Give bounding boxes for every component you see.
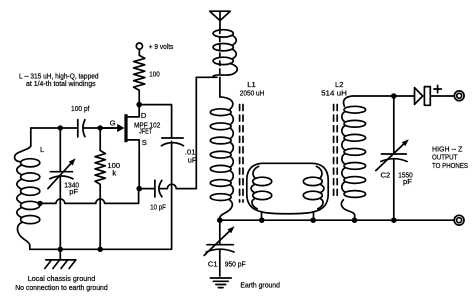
- core lines L2 (dashed): [333, 105, 335, 200]
- capacitor C2 top lead: [393, 96, 395, 153]
- label + polarity: [434, 88, 441, 90]
- wire L2 entry curve: [344, 96, 353, 106]
- capacitor 100 pF left plate: [77, 120, 79, 137]
- coupling coil inner loops: [253, 177, 272, 185]
- node tap dot on coil L: [37, 201, 42, 206]
- svg-text:C2: C2: [381, 170, 391, 179]
- wire source to 10pF: [139, 188, 154, 190]
- transistor source lead: [128, 140, 140, 189]
- wire axis to L1: [219, 77, 221, 97]
- capacitor C2 arrow: [376, 142, 406, 171]
- coupling coil leads: [261, 212, 263, 220]
- node dot rail-100k: [98, 247, 103, 252]
- svg-text:10 pF: 10 pF: [150, 203, 166, 212]
- svg-text:S: S: [142, 138, 147, 147]
- node dot rail-1340pF: [58, 247, 63, 252]
- resistor 100 zigzag: [134, 55, 145, 90]
- wire supply to resistor: [138, 49, 140, 55]
- svg-text:2050 uH: 2050 uH: [240, 89, 264, 98]
- svg-text:C1: C1: [208, 260, 218, 269]
- node dot C2 bottom: [391, 217, 397, 223]
- coupling coil outer turn: [247, 163, 328, 212]
- svg-text:100 pf: 100 pf: [71, 104, 90, 113]
- capacitor C1 straight plate: [207, 244, 233, 246]
- capacitor .01 uF top plate: [162, 137, 183, 139]
- coupling coil inner connectors: [253, 166, 259, 178]
- capacitor C2 curved plate: [381, 159, 407, 162]
- earth ground symbol: [210, 277, 231, 279]
- antenna symbol: [210, 11, 231, 20]
- resistor 100k zigzag: [95, 151, 105, 185]
- terminal output bottom: [454, 215, 464, 225]
- svg-text:Local chassis ground: Local chassis ground: [28, 274, 96, 283]
- capacitor C1 top lead: [219, 220, 221, 244]
- node dot C2 top: [391, 93, 397, 99]
- svg-text:L2: L2: [335, 80, 343, 89]
- wire coil L exit curve: [17, 222, 29, 249]
- svg-text:L: L: [40, 145, 44, 154]
- wire 100pF to gate: [83, 127, 117, 129]
- node dot L1/C1: [217, 217, 223, 223]
- diode D1 cathode bar: [424, 87, 430, 106]
- svg-text:D: D: [141, 111, 147, 120]
- coil L (tank inductor, tapped): [21, 159, 40, 167]
- node dot L2 bottom: [352, 217, 358, 223]
- svg-text:L1: L1: [247, 80, 255, 89]
- capacitor 10 pF curved plate: [159, 180, 162, 196]
- capacitor C2 straight plate: [381, 153, 406, 155]
- node junction dot 1340pF top: [58, 125, 63, 130]
- capacitor 1340 pF variable: top lead: [59, 128, 61, 171]
- wire L1 entry curve: [220, 97, 233, 111]
- svg-text:k: k: [112, 169, 116, 178]
- terminal output top: [454, 91, 464, 101]
- diode D1 triangle: [415, 88, 423, 105]
- transistor drain lead: [128, 106, 140, 117]
- capacitor 100 pF right curved plate: [83, 120, 85, 137]
- resistor 100k leads: [99, 128, 101, 151]
- wire tap to source (with hops): [40, 190, 139, 203]
- antenna coupling coil: [213, 30, 233, 37]
- svg-text:100: 100: [149, 69, 160, 78]
- terminal +9V supply circle: [136, 43, 142, 49]
- chassis ground symbol: [59, 249, 61, 260]
- svg-text:pF: pF: [69, 187, 78, 196]
- wire mid ground rail: [220, 219, 454, 221]
- coupling coil bottom arc: [262, 212, 314, 214]
- svg-text:Earth ground: Earth ground: [240, 280, 280, 289]
- capacitor 1340 pF straight plate: [50, 171, 72, 173]
- svg-text:No connection to earth ground: No connection to earth ground: [15, 283, 108, 292]
- svg-text:950 pF: 950 pF: [225, 260, 246, 269]
- capacitor 10 pF left plate: [154, 180, 156, 197]
- wire L2 exit curve: [341, 200, 354, 220]
- capacitor C2 bottom lead: [393, 160, 395, 221]
- node dot coupling right: [310, 217, 316, 223]
- wire L1 exit curve: [220, 199, 232, 220]
- antenna coil exit sweep to regen wire: [196, 63, 237, 77]
- capacitor .01 uF curved plate: [161, 143, 183, 146]
- coil L1: [210, 109, 231, 116]
- svg-text:pF: pF: [403, 177, 412, 186]
- svg-text:G: G: [110, 118, 116, 127]
- wire drain node to .01uF: [139, 105, 171, 137]
- wire bottom-left ground rail: [30, 142, 172, 250]
- capacitor C1 bottom lead: [219, 250, 221, 276]
- transistor gate lead with arrow: [100, 127, 118, 129]
- wire 10pF to riser (hop over .01 lead): [160, 77, 196, 188]
- wire top rail left (coil L top to 100pF): [31, 128, 77, 146]
- capacitor 1340 pF arrow: [48, 162, 72, 189]
- node drain junction dot: [136, 102, 142, 108]
- capacitor C1 curved plate: [206, 249, 234, 252]
- svg-text:at 1/4-th total windings: at 1/4-th total windings: [26, 79, 96, 88]
- wire resistor to drain node: [138, 90, 140, 104]
- capacitor 1340 pF bottom lead: [59, 177, 61, 250]
- capacitor C1 arrow: [204, 229, 231, 255]
- core lines L1 (dashed): [239, 105, 241, 203]
- svg-text:uF: uF: [188, 156, 197, 165]
- node junction dot 100k top: [98, 125, 103, 130]
- svg-text:+ 9 volts: + 9 volts: [149, 42, 174, 51]
- wire hidden axis (dashed): [219, 29, 221, 77]
- node source junction dot: [136, 186, 142, 192]
- wire L2 top to diode: [352, 95, 414, 97]
- coil L2: [344, 106, 366, 113]
- wire diode to output terminal: [430, 95, 454, 97]
- svg-text:JFET: JFET: [139, 127, 152, 136]
- svg-text:514 uH: 514 uH: [321, 89, 347, 98]
- wire coil L entry curve: [15, 146, 31, 162]
- capacitor 1340 pF curved plate: [50, 176, 73, 179]
- transistor Q1 MPF 102 JFET channel bar: [124, 114, 127, 142]
- node dot coupling left: [259, 217, 265, 223]
- svg-text:TO PHONES: TO PHONES: [432, 161, 468, 170]
